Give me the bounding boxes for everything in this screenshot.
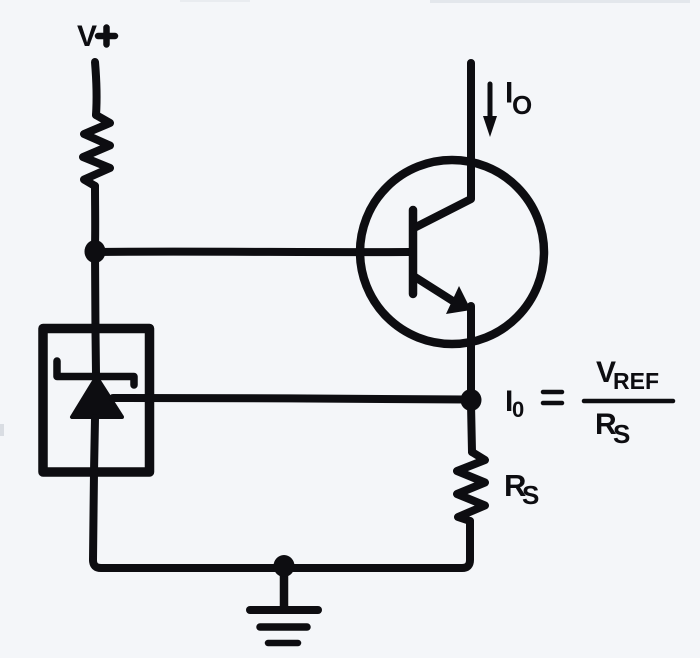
svg-text:O: O — [512, 90, 532, 120]
svg-text:V: V — [77, 20, 97, 53]
emitter arrowhead — [446, 286, 471, 314]
wire node A to reference box — [91, 251, 100, 332]
RS bottom lead — [466, 521, 474, 528]
ground bar 1 — [250, 606, 318, 614]
label Io (top) — [505, 77, 532, 121]
wire R1 to node A — [91, 186, 99, 246]
formula RS (denominator) — [595, 408, 630, 449]
RS top lead — [471, 404, 472, 452]
ground node junction dot — [274, 555, 295, 577]
node A junction dot — [85, 240, 106, 263]
fraction bar — [584, 399, 673, 404]
collector wire — [416, 63, 471, 227]
resistor RS — [457, 452, 485, 521]
wire from box to emitter node — [113, 398, 467, 400]
wire V+ to R1 top — [95, 62, 97, 115]
ground bar 2 — [260, 623, 307, 631]
wire node A to base (base wire) — [95, 248, 409, 256]
svg-text:S: S — [613, 419, 630, 449]
transistor Q1 base bar — [409, 210, 418, 294]
svg-text:0: 0 — [512, 397, 524, 422]
label RS (resistor) — [504, 468, 539, 510]
label Io = (formula left) — [505, 385, 562, 422]
bottom wire to ground and RS — [93, 525, 470, 568]
ground stub — [280, 567, 289, 606]
ground bar 3 — [268, 640, 298, 647]
label V+ — [77, 20, 115, 53]
transistor Q1 circle — [360, 160, 544, 344]
wire zener anode down through box to bottom wire — [93, 418, 95, 560]
svg-text:S: S — [522, 480, 539, 510]
wire through box to zener cathode — [92, 332, 101, 374]
svg-text:REF: REF — [613, 368, 659, 394]
emitter node junction dot — [461, 389, 482, 411]
formula VREF — [596, 356, 659, 394]
reference box U1 — [43, 329, 150, 473]
zener D1 anode triangle — [72, 377, 122, 417]
zener D1 cathode bar — [57, 361, 134, 385]
emitter vertical to node — [467, 306, 475, 396]
Io arrowhead — [483, 116, 497, 137]
emitter wire diagonal — [415, 277, 456, 303]
Io arrow shaft — [488, 84, 493, 120]
resistor R1 — [83, 115, 110, 186]
